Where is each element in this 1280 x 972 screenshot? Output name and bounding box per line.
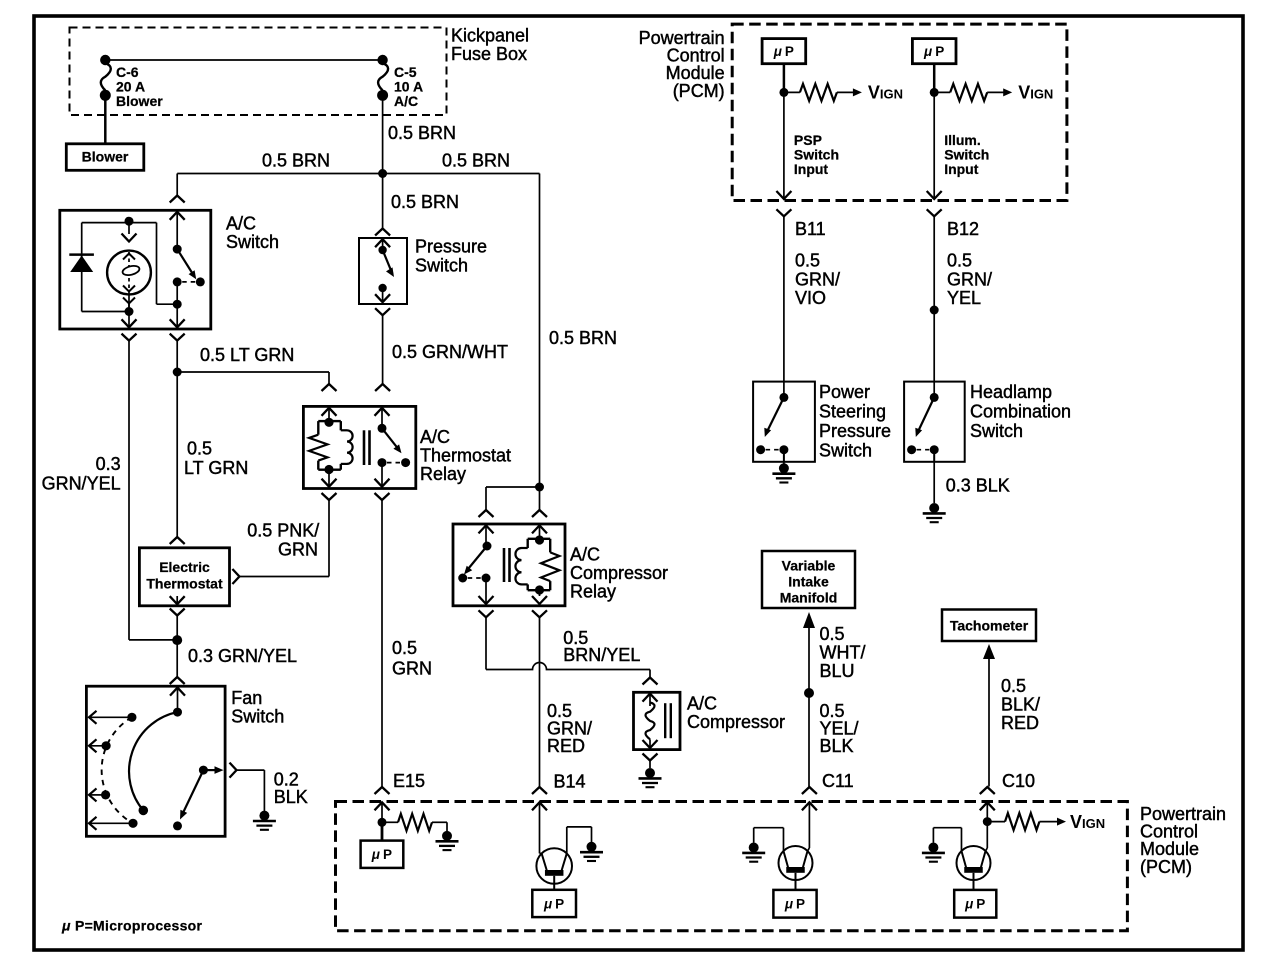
svg-text:A/C: A/C (394, 93, 418, 109)
svg-text:GRN: GRN (392, 659, 432, 679)
svg-text:Relay: Relay (420, 464, 466, 484)
svg-text:A/C: A/C (570, 545, 600, 565)
svg-text:Fan: Fan (231, 688, 262, 708)
svg-text:RED: RED (547, 736, 585, 756)
svg-text:BLK/: BLK/ (1001, 695, 1040, 715)
svg-text:C10: C10 (1002, 771, 1035, 791)
svg-text:P: P (935, 44, 944, 59)
svg-text:0.5: 0.5 (795, 251, 820, 271)
svg-text:Headlamp: Headlamp (970, 382, 1052, 402)
svg-text:Intake: Intake (788, 574, 829, 590)
svg-text:Kickpanel: Kickpanel (451, 26, 529, 46)
svg-text:Steering: Steering (819, 402, 886, 422)
svg-text:μ: μ (784, 897, 793, 912)
svg-text:B11: B11 (795, 219, 826, 239)
svg-text:Tachometer: Tachometer (950, 618, 1029, 634)
svg-text:VIO: VIO (795, 288, 826, 308)
svg-text:Switch: Switch (226, 232, 279, 252)
svg-text:0.5: 0.5 (187, 439, 212, 459)
svg-text:0.5 BRN: 0.5 BRN (442, 151, 510, 171)
svg-text:LT GRN: LT GRN (184, 458, 248, 478)
svg-text:GRN: GRN (278, 540, 318, 560)
svg-text:0.3: 0.3 (96, 454, 121, 474)
svg-text:Electric: Electric (159, 559, 210, 575)
svg-text:Power: Power (819, 382, 870, 402)
svg-text:Variable: Variable (782, 558, 836, 574)
svg-text:RED: RED (1001, 713, 1039, 733)
svg-text:GRN/: GRN/ (795, 270, 840, 290)
svg-text:Manifold: Manifold (780, 590, 838, 606)
svg-text:Pressure: Pressure (819, 421, 891, 441)
svg-text:Input: Input (944, 161, 979, 177)
svg-text:0.3 BLK: 0.3 BLK (946, 476, 1010, 496)
svg-text:Switch: Switch (970, 421, 1023, 441)
svg-text:GRN/YEL: GRN/YEL (42, 474, 121, 494)
svg-text:GRN/: GRN/ (947, 270, 992, 290)
svg-text:0.3 GRN/YEL: 0.3 GRN/YEL (188, 646, 297, 666)
svg-text:BLU: BLU (820, 661, 855, 681)
svg-text:0.5: 0.5 (947, 251, 972, 271)
svg-text:Pressure: Pressure (415, 237, 487, 257)
svg-text:A/C: A/C (687, 694, 717, 714)
svg-text:B14: B14 (554, 772, 586, 792)
svg-text:0.5 BRN: 0.5 BRN (262, 151, 330, 171)
svg-text:μ: μ (371, 847, 380, 862)
svg-text:μ: μ (543, 896, 552, 911)
svg-text:μ: μ (773, 44, 782, 59)
svg-text:P: P (785, 44, 794, 59)
svg-text:Switch: Switch (819, 441, 872, 461)
svg-text:Fuse Box: Fuse Box (451, 44, 527, 64)
svg-text:Thermostat: Thermostat (420, 446, 511, 466)
svg-text:Combination: Combination (970, 402, 1071, 422)
svg-text:0.5 LT GRN: 0.5 LT GRN (200, 345, 294, 365)
svg-text:BRN/YEL: BRN/YEL (563, 645, 640, 665)
svg-text:(PCM): (PCM) (1140, 857, 1192, 877)
svg-text:μ P=Microprocessor: μ P=Microprocessor (61, 918, 203, 934)
svg-text:0.5: 0.5 (1001, 676, 1026, 696)
svg-text:0.5: 0.5 (392, 638, 417, 658)
svg-text:P: P (796, 897, 805, 912)
svg-text:WHT/: WHT/ (820, 643, 866, 663)
svg-text:Compressor: Compressor (570, 563, 668, 583)
svg-text:0.5 PNK/: 0.5 PNK/ (247, 521, 319, 541)
svg-text:P: P (555, 896, 564, 911)
svg-text:YEL: YEL (947, 288, 981, 308)
svg-text:0.5 BRN: 0.5 BRN (549, 328, 617, 348)
svg-text:BLK: BLK (274, 787, 308, 807)
svg-text:Blower: Blower (82, 149, 129, 165)
svg-text:C11: C11 (822, 771, 854, 791)
svg-text:P: P (383, 847, 392, 862)
svg-text:0.5 BRN: 0.5 BRN (391, 192, 459, 212)
svg-text:Thermostat: Thermostat (146, 576, 223, 592)
svg-text:0.5: 0.5 (820, 624, 845, 644)
svg-text:Input: Input (794, 161, 829, 177)
svg-text:0.5 BRN: 0.5 BRN (388, 123, 456, 143)
svg-text:μ: μ (923, 44, 932, 59)
svg-text:Switch: Switch (231, 707, 284, 727)
svg-text:Relay: Relay (570, 582, 616, 602)
svg-text:μ: μ (964, 897, 973, 912)
svg-text:E15: E15 (393, 771, 425, 791)
svg-text:(PCM): (PCM) (673, 81, 725, 101)
svg-text:A/C: A/C (226, 214, 256, 234)
svg-text:Blower: Blower (116, 93, 163, 109)
svg-text:P: P (976, 897, 985, 912)
svg-text:BLK: BLK (820, 736, 854, 756)
svg-text:A/C: A/C (420, 427, 450, 447)
svg-text:B12: B12 (947, 219, 979, 239)
svg-text:Switch: Switch (415, 256, 468, 276)
svg-text:0.5 GRN/WHT: 0.5 GRN/WHT (392, 342, 508, 362)
svg-text:Compressor: Compressor (687, 712, 785, 732)
